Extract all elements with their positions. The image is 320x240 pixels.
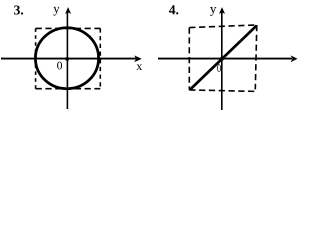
y-axis line (diagram 4) — [221, 11, 223, 110]
dashed square left edge (diagram 4) — [188, 28, 190, 90]
dashed square top edge (diagram 4) — [189, 25, 256, 28]
dashed square left edge lower part (diagram 3) — [35, 62, 37, 89]
dashed square bottom edge (diagram 4) — [189, 90, 255, 92]
y-axis label y (diagram 4) — [210, 7, 216, 16]
dashed square right edge (diagram 4) — [255, 25, 256, 89]
problem number 4 — [169, 5, 178, 14]
x-axis line (diagram 4) — [158, 58, 292, 60]
y-axis label y (diagram 3) — [53, 7, 59, 16]
diagonal line y=x (diagram 4) — [190, 26, 257, 90]
y-axis arrowhead (diagram 3) — [65, 7, 71, 14]
x-axis label x (diagram 3) — [136, 64, 142, 70]
origin dot (diagram 4) — [220, 57, 223, 60]
x-axis line (diagram 3) — [1, 58, 136, 60]
x-axis arrowhead (diagram 3) — [134, 55, 142, 62]
origin dot (diagram 3) — [66, 57, 69, 60]
problem number 3 — [14, 5, 23, 14]
dashed square bottom edge (diagram 3) — [36, 88, 101, 90]
y-axis line (diagram 3) — [66, 11, 68, 109]
dashed square right edge (diagram 3) — [99, 28, 101, 88]
y-axis arrowhead (diagram 4) — [219, 7, 225, 14]
origin label 0 (diagram 4) — [217, 64, 221, 72]
x-axis arrowhead (diagram 4) — [291, 55, 298, 62]
dashed square top edge (diagram 3) — [36, 27, 101, 29]
origin label 0 (diagram 3) — [57, 62, 62, 70]
circle (diagram 3) — [35, 28, 98, 89]
dashed square left edge upper part (diagram 3) — [35, 28, 37, 58]
